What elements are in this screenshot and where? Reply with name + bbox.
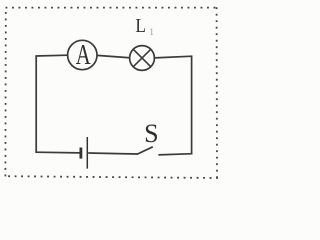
svg-text:S: S (144, 119, 158, 148)
svg-text:A: A (76, 39, 91, 71)
svg-text:1: 1 (149, 27, 154, 37)
svg-text:L: L (135, 15, 146, 37)
